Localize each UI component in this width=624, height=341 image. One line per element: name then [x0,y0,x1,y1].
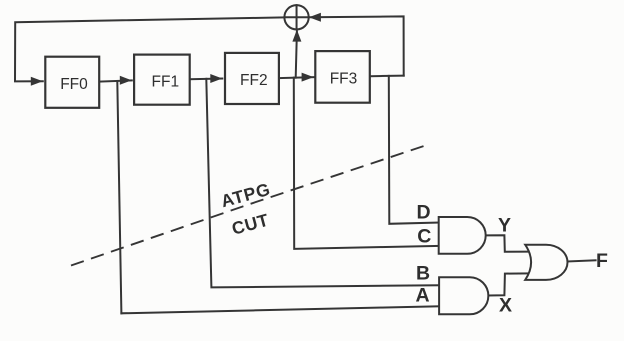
wire: FF1 output to FF2 input with tap junction B [189,78,222,81]
label D [416,202,430,224]
arrowhead into FF3 [302,73,314,82]
arrowhead left into XOR right [309,13,321,22]
svg-text:A: A [415,284,429,306]
wire: XOR output left along top and down to FF0 input [15,17,285,81]
svg-text:F: F [596,250,608,272]
flip-flop FF1 [134,55,190,105]
svg-text:D: D [416,202,430,224]
wire: FF3 output to feedback corner [370,75,404,78]
AND gate U2 (inputs B,A output X) [439,277,488,314]
svg-text:FF2: FF2 [240,72,268,89]
svg-text:FF1: FF1 [152,73,180,90]
svg-text:ATPG: ATPG [219,179,273,211]
arrowhead into FF0 [31,77,43,86]
wire: FF2 output to FF3 input [279,77,314,78]
wire: feedback vertical and top run back to XOR with junction at FF3 out [311,16,404,75]
XOR gate (circle-plus) feedback adder [284,5,308,29]
arrowhead up into XOR bottom [292,30,301,42]
flip-flop FF3 [315,51,370,103]
wire: OR output to F [567,260,595,261]
wire: tap C down from FF2/FF3 net to AND1 input C [294,78,440,249]
label CUT [230,210,271,239]
wire: tap A down from FF0/FF1 net to AND2 input A [117,81,440,313]
wire: tap up from FF2/FF3 net into XOR bottom [296,32,297,78]
svg-text:B: B [416,262,430,284]
wire: tap D down from FF3 output net to AND1 input D [389,76,440,224]
label A [415,284,429,306]
svg-text:Y: Y [498,215,511,237]
label ATPG [219,179,273,211]
wire: AND2 output X to OR bottom input [488,273,531,295]
svg-text:X: X [499,294,512,316]
wire: tap B down from FF1/FF2 net to AND2 input B [206,79,439,288]
label X [499,294,512,316]
wire: AND1 output Y to OR top input [486,235,531,252]
svg-text:C: C [417,226,431,248]
arrowhead into FF2 [210,74,222,83]
svg-text:FF3: FF3 [330,71,358,88]
label C [417,226,431,248]
flip-flop FF0 [45,57,99,108]
dashed line: ATPG CUT scan boundary [71,145,426,265]
label F [596,250,608,272]
label Y [498,215,511,237]
label B [416,262,430,284]
svg-text:CUT: CUT [230,210,271,239]
flip-flop FF2 [225,53,279,104]
arrowhead into FF1 [120,76,132,85]
wire: FF0 output to FF1 input with tap junction A [99,80,132,81]
AND gate U1 (inputs D,C output Y) [439,217,486,254]
svg-text:FF0: FF0 [60,76,88,93]
OR gate U3 (inputs Y,X output F) [525,245,567,280]
